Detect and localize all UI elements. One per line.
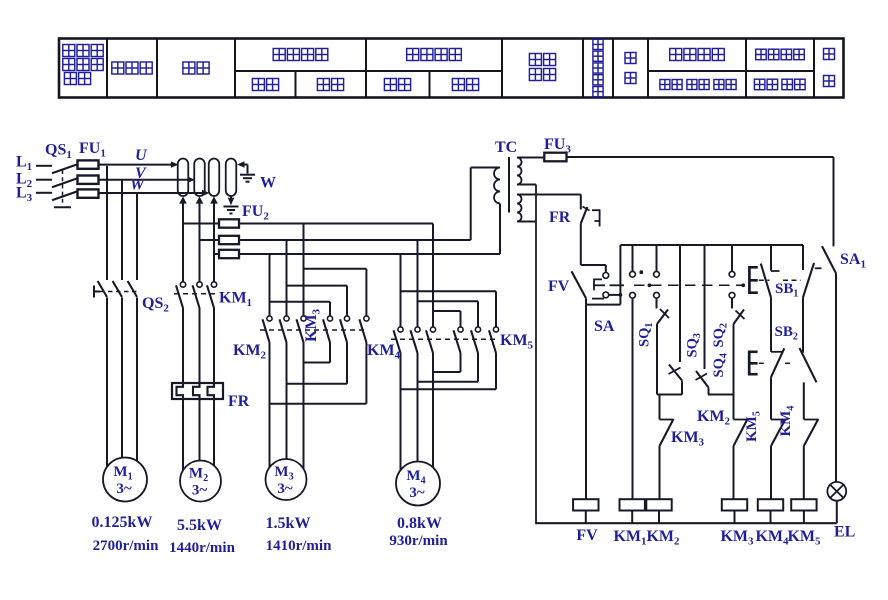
contactor KM5 main contacts [391,327,499,353]
table cell 立柱夹紧 [407,49,419,61]
svg-text:3~: 3~ [277,481,293,497]
table cell 上升 [252,79,264,91]
table cell 总开头及电源保护 [63,45,75,57]
table cell 松开 夹紧 right [754,79,765,90]
feeder FU2-3 to KM4 pole1 and KM5 pole3 [401,254,497,327]
wire winding3 to KM1 pole3 [213,198,215,282]
KM5 pole stubs down [461,353,497,389]
wire FU3 to SA1 [567,157,834,246]
wire winding1 to KM1 pole1 [182,198,184,282]
motor M3 [266,459,307,500]
svg-text:FV: FV [548,278,570,295]
autotransformer winding 2 [194,159,205,197]
tap to fuse FU2-1 [183,223,219,225]
interlock contact KM2 (NC) [734,419,748,499]
fuse FU2 [219,219,239,258]
table cell 主轴 [183,62,195,74]
table cell 夹紧 [452,79,464,91]
wire TC primary top to FU2 row2 [471,168,500,241]
thermal relay FR heaters [172,383,223,399]
svg-text:EL: EL [834,524,855,541]
contactor KM2 main contacts [263,316,307,343]
reversing link KM4.2-KM5.2 [418,381,479,383]
wire TC secondary1 to left rail [517,184,536,186]
wire FU2 row1 [239,223,433,225]
wire TC secondary2 bottom to rail [517,221,536,223]
table cell 立柱夹紧 right [756,49,767,60]
svg-text:930r/min: 930r/min [389,533,448,549]
coil KM4 [758,499,783,523]
disconnect switch QS1 [52,164,78,207]
svg-text:SA: SA [594,318,615,335]
FV node to riser [586,245,622,305]
ground below winding 4 [224,207,239,214]
arrow into winding 1 bottom [179,196,187,203]
svg-text:3~: 3~ [409,485,425,501]
wire KM4 to motor M4 [401,353,434,481]
supply line L3 [36,192,52,194]
wire drop W to QS2 pole 3 [136,193,138,280]
contactor KM4 main contacts [394,327,436,353]
feeder FU2-2 to KM2 pole2 and KM3 pole2 [287,240,348,316]
svg-text:0.8kW: 0.8kW [397,515,442,532]
wire SB1 to SB2 [771,297,803,352]
coil KM5 [791,499,816,523]
switch SA contact c [729,245,735,298]
table cell 冷却泵 [112,62,124,74]
reversing link KM2.1-KM3.3 [270,403,367,405]
wire drop V to QS2 pole 2 [121,180,123,280]
coil FV [573,499,598,523]
coil KM1 [620,499,645,523]
svg-text:2700r/min: 2700r/min [93,538,159,554]
interlock contact KM5 (NC) [771,419,786,499]
wire drop U to QS2 pole 1 [106,166,108,280]
svg-text:3~: 3~ [116,481,132,497]
table cell 上升 制动 下降 [660,80,670,90]
wire W phase [99,190,210,196]
pushbutton SB2 actuator [749,351,793,376]
thermal relay contact FR (NC) [581,195,600,227]
switch QS2 [94,281,138,298]
table cell 松开 [384,79,396,91]
reversing link KM4.3-KM5.1 [433,371,461,373]
pushbutton SB1 actuator [749,266,800,294]
node bus SQ4-SQ2 [708,394,734,396]
pushbutton SB2 contact left [771,348,784,377]
KM3 pole stubs down [330,343,366,404]
svg-text:1440r/min: 1440r/min [169,540,235,556]
control bottom bus [535,522,837,524]
svg-text:5.5kW: 5.5kW [177,517,222,534]
wire FU2 row2 [239,239,471,241]
motor M4 [396,462,440,506]
table cell 照明 vertical [824,49,835,60]
reversing link KM4.1-KM5.3 [401,388,497,390]
wire V phase [99,177,196,183]
control left rail [535,185,537,524]
transformer TC [494,157,522,222]
wire FV node to FV coil [585,305,587,500]
feeder FU2-1 to KM4 pole3 and KM5 pole1 [433,224,461,327]
svg-text:1.5kW: 1.5kW [266,515,311,532]
svg-text:W: W [260,175,276,192]
svg-text:FV: FV [576,527,598,544]
switch SA contact a [630,245,636,298]
supply line L1 [36,165,52,167]
limit switch SQ4 [696,371,709,395]
autotransformer winding 1 [178,159,189,197]
svg-text:FR: FR [228,393,250,410]
wire FU2 row3 [239,253,500,255]
tap to fuse FU2-2 [200,239,220,241]
autotransformer winding 3 [209,159,220,197]
table cell 摇臂升降 right [670,49,682,61]
svg-text:1410r/min: 1410r/min [266,538,332,554]
arrow into winding 3 bottom [210,196,218,203]
SA linkage dash-dot line [593,270,745,287]
winding 4 bottom tap wire [228,196,234,205]
interlock contact KM4 (NC) [804,419,819,499]
svg-text:U: U [135,147,148,164]
wire winding2 to KM1 pole2 [199,198,201,282]
wire SQ3 feed from top bus [679,245,681,362]
svg-text:FR: FR [549,209,571,226]
reversing link KM2.3-KM3.1 [304,362,331,364]
svg-text:TC: TC [495,139,517,156]
interlock contact KM3 (NC) [660,395,674,500]
autotransformer winding 4 [226,159,237,197]
table cell 摇臂升降 [273,49,285,61]
contactor KM1 main contacts [174,282,217,308]
limit switch SQ1 [657,298,670,394]
arrow into winding 2 bottom [196,196,204,203]
feeder FU2-1 to KM2 pole3 and KM3 pole3 [304,224,367,316]
motor M2 [180,461,221,502]
wire KM1 to FR [183,308,214,383]
wire U phase [99,161,179,167]
motor M1 [103,458,147,502]
pushbutton SB1 contact left [761,245,780,297]
fuse FU1 [78,160,99,197]
function header table [59,39,844,98]
winding 4 top tap wire [237,161,248,173]
pushbutton SB1 contact right [803,245,822,297]
svg-text:0.125kW: 0.125kW [92,514,153,531]
feeder FU2-3 to KM2 pole1 and KM3 pole1 [270,254,331,316]
wire FR contact to FV pins [581,224,606,273]
wire QS2 to motor M1 [107,298,137,478]
table cell 保护失电压 vertical [593,39,603,49]
undervoltage relay contact FV [572,271,609,304]
wire SA contact a to KM1 coil [632,298,634,499]
supply line L2 [36,179,52,181]
wire SB2 to interlocks [771,377,804,419]
switch SA contact b [654,245,660,298]
limit switch SQ2 [732,298,745,419]
lamp EL [827,482,846,523]
table cell 下降 [317,79,329,91]
node bus SQ1-SQ3 [657,394,682,396]
table cell 控制电源 [529,54,541,66]
table cell 主轴 vertical [625,53,636,64]
wire TC secondary2 top to FR contact [517,194,581,196]
svg-text:W: W [130,177,146,194]
feeder FU2-2 to KM4 pole2 and KM5 pole2 [418,240,479,327]
reversing link KM2.2-KM3.2 [287,383,348,385]
control top bus [620,244,803,246]
wire SQ4 feed from top bus [704,245,706,369]
coil KM2 [646,499,671,523]
wire FR to motor M2 [183,399,214,479]
limit switch SQ3 [669,365,683,395]
wire TC primary bottom to FU2 row3 [499,204,501,255]
svg-text:3~: 3~ [192,483,208,499]
tap to fuse FU2-3 [214,253,219,255]
switch SA1 [822,246,836,482]
coil KM3 [722,499,747,523]
fuse FU3 [517,153,567,162]
wire KM2 to motor M3 [270,343,304,478]
pushbutton SB2 contact right [800,348,817,382]
ground at winding 4 top [240,175,255,182]
contactor KM3 main contacts [260,316,369,343]
